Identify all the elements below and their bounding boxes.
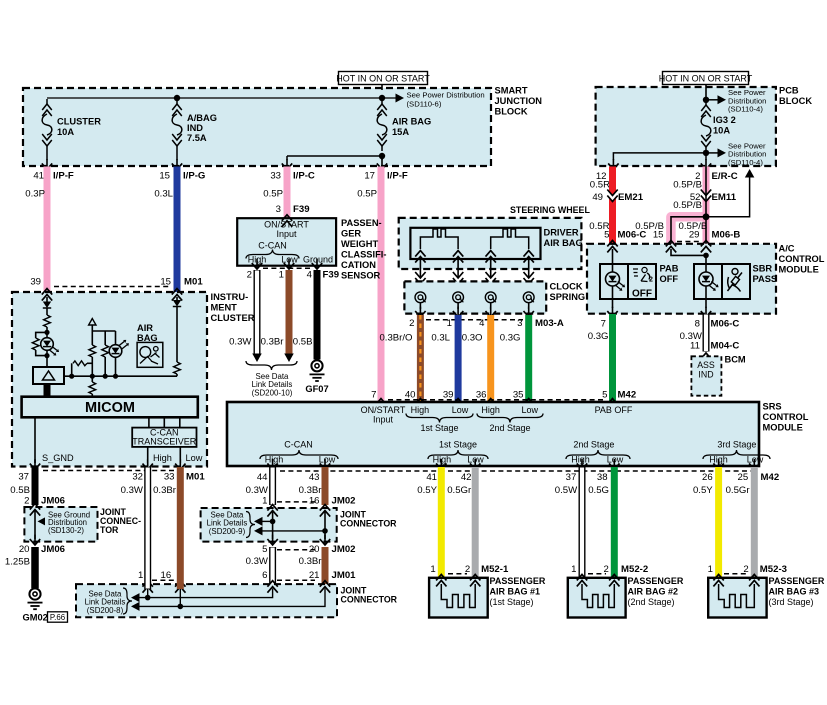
svg-text:2: 2: [24, 495, 29, 506]
svg-text:0.5P: 0.5P: [263, 189, 283, 200]
connector row F39 dashed: [263, 267, 311, 269]
wire 0.5P SRS module feed: [378, 167, 385, 403]
SBR PASS indicator: [694, 264, 722, 299]
steering wheel box: [399, 218, 582, 269]
wire from pin 39 to diode: [46, 297, 48, 302]
connector row M42 top dashed: [388, 399, 604, 401]
svg-text:0.3Br: 0.3Br: [299, 556, 323, 567]
svg-text:MODULE: MODULE: [779, 265, 819, 275]
wire C-CAN High out: [147, 447, 149, 463]
svg-text:F39: F39: [293, 204, 310, 215]
svg-text:M42: M42: [761, 472, 780, 483]
BCM box: [691, 356, 721, 395]
svg-text:(SD130-2): (SD130-2): [48, 526, 84, 535]
svg-text:PAB OFF: PAB OFF: [595, 405, 633, 415]
svg-text:7: 7: [371, 390, 376, 401]
svg-text:M06-C: M06-C: [711, 319, 740, 330]
svg-text:M04-C: M04-C: [711, 341, 740, 352]
diode D2: [173, 300, 181, 307]
svg-text:(SD200-8): (SD200-8): [87, 606, 124, 615]
wire from IG3 fuse to pin 2: [705, 153, 707, 160]
svg-text:Low: Low: [452, 405, 469, 415]
thick link to MICOM: [44, 384, 51, 397]
svg-text:AIR: AIR: [137, 323, 153, 333]
wire D2 down: [176, 307, 178, 363]
SBR PASS seat belt icon: [732, 269, 738, 275]
entry pin 2 JM06: [30, 504, 40, 516]
clock spring coils: [415, 292, 426, 303]
svg-text:HOT IN ON OR START: HOT IN ON OR START: [336, 73, 430, 83]
entry pin 3: [282, 215, 292, 227]
brace C-CAN sensor: [246, 250, 299, 259]
svg-text:0.3W: 0.3W: [229, 337, 252, 348]
svg-text:High: High: [411, 405, 430, 415]
label HOT IN ON OR START (left): [339, 72, 428, 85]
wire 0.3G 2nd stage low: [525, 315, 532, 402]
svg-text:AIR BAG: AIR BAG: [544, 238, 583, 248]
svg-text:I/P-F: I/P-F: [387, 171, 408, 182]
svg-text:SENSOR: SENSOR: [341, 271, 381, 281]
svg-text:Low: Low: [747, 454, 764, 464]
svg-text:CONTROL: CONTROL: [779, 254, 825, 264]
svg-text:GER: GER: [341, 229, 361, 239]
thin conductor lines of 0.5P/B: [705, 167, 707, 247]
wire stub from HOT label: [381, 85, 383, 91]
label HOT IN ON OR START (right): [663, 72, 749, 85]
svg-text:M52-3: M52-3: [760, 564, 787, 575]
svg-text:0.3G: 0.3G: [588, 331, 609, 342]
svg-text:0.5B: 0.5B: [293, 337, 313, 348]
wire below CLUSTER fuse: [46, 159, 48, 168]
svg-text:0.3Br: 0.3Br: [261, 337, 285, 348]
svg-text:42: 42: [461, 472, 472, 483]
node to w-resistor: [69, 374, 74, 379]
joint connector JM01 box: [76, 584, 337, 617]
svg-text:BAG: BAG: [137, 333, 158, 343]
arrow to ground distribution: [38, 517, 46, 525]
svg-text:EM11: EM11: [712, 192, 737, 203]
svg-text:3rd Stage: 3rd Stage: [717, 440, 756, 450]
squib 2 driver airbag: [491, 229, 529, 249]
svg-text:CONTROL: CONTROL: [763, 412, 809, 422]
A/C control module box: [587, 244, 776, 314]
entry pins JM01: [143, 581, 153, 593]
svg-text:4: 4: [479, 318, 485, 329]
svg-text:Input: Input: [276, 229, 297, 239]
wire 0.5Gr 3rd stage low: [751, 467, 758, 578]
squib passenger airbag 3: [719, 584, 755, 608]
arrow to power distribution upper (SD110-4): [706, 99, 718, 101]
wire through JM06 box: [34, 511, 36, 539]
svg-text:41: 41: [33, 171, 44, 182]
exit pin 2: [256, 259, 258, 268]
svg-text:0.3G: 0.3G: [500, 333, 521, 344]
svg-text:AIR BAG #2: AIR BAG #2: [628, 587, 679, 597]
svg-text:C-CAN: C-CAN: [284, 440, 313, 450]
ground page reference P.66: [48, 612, 68, 622]
diode D1: [43, 302, 51, 309]
entry pin 15: [172, 289, 182, 301]
supply triangle: [89, 319, 96, 326]
wire parallel resistor to node: [36, 350, 47, 356]
PCB block: [596, 87, 776, 166]
svg-text:0.3W: 0.3W: [121, 485, 144, 496]
wires steering wheel to clock spring: [419, 259, 421, 292]
inline connectors to clock spring: [416, 275, 425, 280]
svg-text:ON/START: ON/START: [361, 405, 406, 415]
svg-text:(3rd Stage): (3rd Stage): [769, 597, 814, 607]
connector row M03-A dashed: [426, 319, 523, 321]
connector row M42 bottom dashed: [280, 470, 758, 472]
wire 0.3W C-CAN high: [269, 467, 276, 505]
inline connector 49 EM21: [608, 193, 617, 198]
svg-text:CONNECTOR: CONNECTOR: [341, 595, 398, 605]
svg-text:0.5Gr: 0.5Gr: [447, 485, 472, 496]
driver air bag box: [410, 228, 540, 259]
joint connector JM06 box: [24, 507, 97, 542]
wire to LED branch node: [46, 327, 48, 332]
svg-text:1st Stage: 1st Stage: [439, 440, 477, 450]
svg-text:2: 2: [603, 564, 608, 575]
svg-text:Low: Low: [607, 454, 624, 464]
svg-text:6: 6: [262, 570, 267, 581]
svg-text:0.5P/B: 0.5P/B: [673, 179, 702, 190]
wire from IG3 fuse to pin 12: [613, 153, 706, 160]
junction node below AIR BAG fuse: [379, 153, 385, 159]
svg-text:P.66: P.66: [50, 613, 66, 622]
wire 0.5Gr 1st stage low: [472, 467, 479, 578]
svg-text:High: High: [571, 454, 590, 464]
brace data link: [246, 361, 297, 370]
exit pin 1: [288, 259, 290, 268]
svg-text:0.5W: 0.5W: [555, 485, 578, 496]
wire C-CAN Low out: [179, 447, 181, 463]
wire to SBR PASS lamp: [705, 255, 707, 264]
junction node at AIR BAG fuse: [379, 95, 385, 101]
svg-text:1: 1: [279, 270, 284, 281]
main node wire: [64, 375, 177, 377]
SRS control module box: [227, 402, 759, 466]
svg-text:I/P-G: I/P-G: [183, 171, 205, 182]
svg-text:41: 41: [426, 472, 437, 483]
svg-text:44: 44: [257, 472, 268, 483]
svg-text:15: 15: [653, 229, 664, 240]
svg-text:AIR BAG #3: AIR BAG #3: [769, 587, 820, 597]
svg-text:STEERING WHEEL: STEERING WHEEL: [510, 205, 590, 215]
svg-text:I/P-F: I/P-F: [53, 171, 74, 182]
exit pins SRS bottom: [272, 459, 274, 468]
svg-text:25: 25: [738, 472, 749, 483]
svg-text:JM01: JM01: [332, 570, 357, 581]
svg-text:M52-2: M52-2: [621, 564, 648, 575]
wire 0.3P cluster feed: [44, 167, 51, 293]
svg-text:JM06: JM06: [41, 544, 65, 555]
wire diode to resistor: [46, 308, 48, 315]
wire 1.25B to ground: [31, 547, 39, 588]
fuse CLUSTER 10A: [46, 99, 48, 104]
svg-text:BCM: BCM: [725, 355, 746, 365]
arrow to data link (low): [284, 354, 294, 363]
resistor R3: [89, 345, 96, 357]
wire 0.3L 1st stage low: [455, 315, 462, 402]
svg-text:1: 1: [447, 318, 452, 329]
arrow from low to data link: [254, 526, 263, 535]
passenger air bag #2 box: [568, 578, 626, 618]
svg-text:3: 3: [276, 204, 281, 215]
svg-text:1: 1: [708, 564, 713, 575]
svg-text:GF07: GF07: [305, 384, 328, 394]
svg-text:7.5A: 7.5A: [187, 133, 207, 143]
wire 0.5P/B vertical: [703, 167, 710, 247]
svg-text:CLASSIFI-: CLASSIFI-: [341, 250, 386, 260]
wire from pin 15 to diode D2: [176, 297, 178, 300]
svg-text:CLUSTER: CLUSTER: [57, 117, 101, 127]
ground GF07: [311, 360, 322, 371]
svg-text:High: High: [265, 454, 284, 464]
svg-text:2nd Stage: 2nd Stage: [573, 440, 614, 450]
svg-text:ON/START: ON/START: [264, 220, 309, 230]
wire branch 3 to LED: [115, 331, 117, 345]
svg-text:2: 2: [247, 270, 252, 281]
svg-text:I/P-C: I/P-C: [293, 171, 315, 182]
svg-text:IG3 2: IG3 2: [713, 115, 736, 125]
wire 0.5B cluster ground: [32, 467, 39, 505]
svg-text:ASS: ASS: [697, 360, 715, 370]
connector row M06-B dashed: [677, 241, 699, 243]
entry pin 39: [42, 289, 52, 301]
svg-text:High: High: [481, 405, 500, 415]
wire 0.5Y 1st stage high: [438, 467, 445, 578]
connector row M01 dashed line: [54, 286, 170, 288]
svg-text:7: 7: [601, 319, 606, 330]
junction node at A/BAG IND fuse: [174, 95, 180, 101]
svg-text:(SD200-10): (SD200-10): [252, 388, 293, 397]
wire S_GND: [34, 417, 36, 463]
fuse IG3 2 10A: [705, 100, 707, 105]
svg-text:10A: 10A: [713, 126, 730, 136]
svg-text:0.5R: 0.5R: [590, 179, 610, 190]
svg-text:37: 37: [18, 472, 29, 483]
svg-text:PAB: PAB: [660, 264, 679, 274]
svg-text:SRS: SRS: [763, 402, 782, 412]
JM01 internal wire low: [131, 602, 140, 611]
fuse AIR BAG 15A: [381, 99, 383, 104]
svg-text:2: 2: [649, 277, 653, 284]
arrow to data link (high): [252, 354, 262, 363]
svg-text:(2nd Stage): (2nd Stage): [628, 597, 675, 607]
wire below A/BAG IND fuse: [176, 159, 178, 168]
driver box with triangle: [33, 367, 64, 384]
svg-text:0.5Y: 0.5Y: [693, 485, 713, 496]
wire 0.5B sensor ground: [314, 270, 321, 360]
svg-text:M03-A: M03-A: [535, 318, 564, 329]
resistor R7: [174, 362, 181, 374]
svg-text:0.3P: 0.3P: [25, 189, 45, 200]
svg-text:39: 39: [30, 277, 41, 288]
svg-text:16: 16: [309, 495, 320, 506]
svg-text:0.3L: 0.3L: [431, 333, 450, 344]
svg-text:PASS: PASS: [753, 274, 778, 284]
wire SBR PASS lamp to pin 8: [705, 299, 707, 308]
bus wire in junction block: [47, 97, 396, 99]
wire 0.3Br sensor low: [286, 270, 293, 355]
ground GM02: [29, 588, 40, 599]
svg-text:43: 43: [309, 472, 320, 483]
entry pins SRS top: [376, 399, 386, 411]
svg-text:0.3O: 0.3O: [462, 333, 483, 344]
squib passenger airbag 1: [441, 584, 475, 608]
wire to PAB OFF lamp: [612, 249, 614, 264]
JM01 internal wire high: [131, 593, 140, 602]
bridge wire: [92, 330, 115, 332]
svg-text:5: 5: [604, 229, 609, 240]
svg-text:4: 4: [307, 270, 313, 281]
svg-text:SMART: SMART: [495, 86, 528, 96]
junction node below IG3 fuse: [703, 150, 709, 156]
svg-text:2: 2: [409, 318, 414, 329]
svg-text:0.5Y: 0.5Y: [417, 485, 437, 496]
instrument cluster box: [12, 292, 207, 467]
svg-text:PASSENGER: PASSENGER: [490, 576, 546, 586]
wire 0.3Br JM02 to JM01: [322, 547, 329, 589]
svg-text:33: 33: [164, 472, 175, 483]
svg-text:SPRING: SPRING: [550, 292, 586, 302]
wire 0.3Br cluster low to JM01: [177, 467, 184, 589]
svg-text:S_GND: S_GND: [42, 453, 74, 463]
wire R7 to main node wire: [176, 374, 178, 376]
svg-text:0.5Gr: 0.5Gr: [726, 485, 751, 496]
svg-text:GM02: GM02: [23, 613, 48, 623]
svg-text:29: 29: [689, 229, 700, 240]
svg-text:OFF: OFF: [632, 289, 652, 300]
svg-text:1: 1: [571, 564, 576, 575]
svg-text:0.5P: 0.5P: [357, 189, 377, 200]
joint connector JM02 box: [201, 508, 337, 542]
svg-text:See Power Distribution: See Power Distribution: [407, 90, 485, 99]
svg-text:37: 37: [566, 472, 577, 483]
svg-text:OFF: OFF: [660, 274, 679, 284]
svg-text:(1st Stage): (1st Stage): [490, 597, 534, 607]
svg-text:11: 11: [690, 341, 700, 352]
wire PAB OFF lamp to pin 7: [612, 299, 614, 308]
passenger air bag #3 box: [708, 578, 766, 618]
svg-text:10A: 10A: [57, 127, 74, 137]
svg-text:1: 1: [430, 564, 435, 575]
svg-text:INSTRU-: INSTRU-: [211, 292, 249, 302]
wire branch 2: [104, 331, 106, 345]
svg-text:Ground: Ground: [303, 254, 333, 264]
svg-text:PCB: PCB: [779, 86, 799, 96]
svg-text:1.25B: 1.25B: [5, 556, 30, 567]
svg-text:2nd Stage: 2nd Stage: [489, 423, 530, 433]
PAB OFF indicator: [600, 264, 628, 299]
svg-text:PASSEN-: PASSEN-: [341, 218, 382, 228]
arrow to power distribution lower (SD110-4): [706, 152, 718, 154]
C-CAN transceiver box: [132, 428, 196, 447]
svg-text:MODULE: MODULE: [763, 423, 803, 433]
svg-text:E/R-C: E/R-C: [712, 171, 738, 182]
svg-text:CATION: CATION: [341, 260, 376, 270]
svg-text:8: 8: [695, 319, 700, 330]
svg-text:M42: M42: [618, 390, 637, 401]
svg-text:PASSENGER: PASSENGER: [769, 576, 825, 586]
resistor R5: [102, 345, 109, 357]
wire 0.5R to A/C module: [609, 167, 616, 244]
squib 1 driver airbag: [420, 229, 458, 249]
arrow to power distribution (SD110-6): [396, 94, 405, 103]
svg-text:JM02: JM02: [332, 544, 356, 555]
junction node above IG3 fuse: [703, 97, 709, 103]
exit pins JM02 bottom: [272, 535, 274, 544]
resistor R1: [44, 315, 51, 327]
clock spring box: [404, 281, 546, 313]
wire 0.3L airbag indicator feed: [174, 167, 181, 293]
wire 0.3W cluster high to JM01: [144, 467, 151, 589]
svg-text:5: 5: [262, 544, 267, 555]
exit pin 4: [316, 259, 318, 268]
svg-text:A/BAG: A/BAG: [187, 113, 217, 123]
svg-text:MENT: MENT: [211, 303, 238, 313]
svg-text:Low: Low: [319, 454, 336, 464]
entry pins JM02: [267, 505, 277, 517]
wire R5 to node: [104, 357, 106, 376]
highlight band on 0.5P/B loop: [671, 217, 703, 244]
smart junction block: [23, 88, 491, 166]
fuse A/BAG IND 7.5A: [176, 99, 178, 104]
MICOM to transceiver wires: [148, 417, 150, 427]
wire 0.3W to BCM: [703, 314, 710, 352]
svg-text:CLOCK: CLOCK: [550, 282, 583, 292]
wire 0.3W sensor high: [254, 270, 261, 355]
svg-text:JUNCTION: JUNCTION: [495, 96, 543, 106]
squib passenger airbag 2: [582, 584, 614, 608]
svg-text:(SD110-6): (SD110-6): [407, 100, 442, 109]
exit pin 20 JM06: [34, 535, 36, 544]
wire stub from HOT label to PCB block: [705, 85, 707, 101]
LED airbag warning lamp: [46, 332, 48, 337]
svg-text:CLUSTER: CLUSTER: [211, 313, 255, 323]
wire 0.5G 2nd stage low: [611, 467, 618, 578]
wire R4 to MICOM: [91, 394, 93, 397]
inline connector 52 EM11: [702, 193, 711, 198]
svg-text:3: 3: [517, 318, 522, 329]
svg-text:15: 15: [159, 171, 170, 182]
wire from AIR BAG fuse to pin 17: [381, 156, 383, 160]
svg-text:SBR: SBR: [753, 264, 773, 274]
svg-text:EM21: EM21: [618, 192, 644, 203]
svg-text:38: 38: [597, 472, 608, 483]
LED airbag lamp 2: [109, 345, 122, 358]
svg-text:0.5G: 0.5G: [588, 485, 609, 496]
svg-text:20: 20: [19, 544, 30, 555]
svg-text:M06-B: M06-B: [712, 229, 741, 240]
connector row M01 bottom dashed: [43, 470, 181, 472]
weight sensor box: [237, 218, 336, 266]
svg-text:1: 1: [138, 570, 143, 581]
wire 0.3Br C-CAN low: [322, 467, 329, 505]
resistor R2 parallel: [32, 338, 39, 350]
entry to BCM: [701, 353, 711, 365]
svg-text:AIR BAG #1: AIR BAG #1: [490, 587, 541, 597]
svg-text:AIR BAG: AIR BAG: [392, 117, 431, 127]
svg-text:TRANSCEIVER: TRANSCEIVER: [132, 437, 197, 447]
svg-text:(SD110-4): (SD110-4): [728, 158, 763, 167]
svg-text:BLOCK: BLOCK: [495, 107, 528, 117]
svg-text:BLOCK: BLOCK: [779, 96, 812, 106]
svg-text:33: 33: [270, 171, 281, 182]
svg-text:WEIGHT: WEIGHT: [341, 239, 379, 249]
svg-text:Low: Low: [521, 405, 538, 415]
